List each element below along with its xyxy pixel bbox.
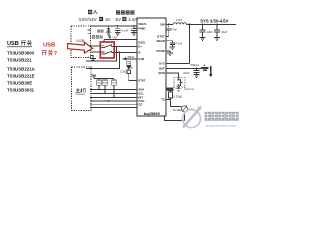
svg-text:2.4A: 2.4A xyxy=(128,17,137,22)
watermark logo (elecfans) xyxy=(183,106,202,128)
capacitor C5 10uF on SYS xyxy=(202,24,204,29)
svg-text:4.7uF: 4.7uF xyxy=(175,41,182,45)
svg-text:USB: USB xyxy=(76,38,85,43)
wire thermistor to ground rail xyxy=(183,112,185,121)
thermistor RT1 10.3k NTC xyxy=(181,106,187,112)
resistor value labels 10k inside boxes xyxy=(97,82,117,84)
svg-text:CE: CE xyxy=(138,102,142,106)
value labels xyxy=(120,27,228,112)
svg-text:QON: QON xyxy=(158,71,165,75)
IC U1 pin labels (left) xyxy=(138,22,146,106)
node VBUS junction dots xyxy=(117,25,119,27)
svg-text:TS3USB3000: TS3USB3000 xyxy=(7,51,35,56)
red arrow callout xyxy=(68,42,93,53)
current arrow (discharge) xyxy=(210,66,211,74)
capacitor C7 10uF on BAT xyxy=(196,68,198,70)
node D+ drop junction xyxy=(116,46,118,48)
svg-text:TS3USB221: TS3USB221 xyxy=(7,58,32,63)
svg-text:10uF: 10uF xyxy=(221,30,227,34)
capacitor C6 10uF on SYS xyxy=(216,24,218,29)
wire SDA row xyxy=(90,88,137,90)
capacitor C4 4.7uF on REGN xyxy=(170,43,175,45)
capacitor C1 0.1uF on VBUS xyxy=(117,26,119,28)
svg-text:5.23kΩ: 5.23kΩ xyxy=(174,95,183,99)
svg-text:5V: 5V xyxy=(116,17,121,22)
USB connector pin stubs xyxy=(88,30,91,33)
battery BT1 xyxy=(201,67,208,69)
wire STAT xyxy=(129,74,137,81)
svg-text:36kΩ: 36kΩ xyxy=(128,55,134,59)
svg-text:BAT: BAT xyxy=(159,67,165,71)
node SYS junctions xyxy=(188,24,190,26)
wire DSEL select line xyxy=(104,39,137,42)
wire VBUS from USB connector to VBUS pin xyxy=(91,25,138,27)
host MCU dashed box xyxy=(72,67,92,111)
annotation small label near TVS xyxy=(97,30,103,33)
svg-text:Optional: Optional xyxy=(184,87,194,91)
svg-text:D-: D- xyxy=(138,50,141,54)
ground for D1 xyxy=(106,33,112,36)
svg-text:47nF: 47nF xyxy=(171,27,177,31)
wire ILIM with net arrow xyxy=(123,58,138,60)
wire REGN pin xyxy=(166,41,172,43)
wire PMID pin stub xyxy=(134,28,137,30)
input annotation 输入 3.9V/14V 或 3A xyxy=(88,10,92,14)
svg-text:TS3USB221E: TS3USB221E xyxy=(7,74,35,79)
wire D+ switch to IC xyxy=(112,46,138,48)
wire D- to host xyxy=(86,52,119,68)
ground for C2 xyxy=(131,33,137,36)
inductor L1 1uH xyxy=(173,23,186,25)
capacitor C2 1uF xyxy=(133,26,135,28)
svg-text:10uF: 10uF xyxy=(183,71,189,75)
svg-text:USB: USB xyxy=(112,37,117,39)
svg-text:?: ? xyxy=(54,51,58,57)
svg-text:TS3USB30E: TS3USB30E xyxy=(7,81,32,86)
svg-text:+: + xyxy=(203,63,205,67)
svg-text:SW: SW xyxy=(160,23,165,27)
wire D- from USB to switch xyxy=(91,51,102,53)
node junctions on I2C rows xyxy=(98,88,100,90)
diode D1 TVS on VBUS xyxy=(108,26,110,28)
ground below USB connector xyxy=(91,55,94,58)
svg-text:PMID: PMID xyxy=(138,26,145,30)
wire TS pin xyxy=(166,99,170,101)
svg-text:REGN: REGN xyxy=(166,88,173,91)
switch S1 (USB switch, D+) xyxy=(102,45,112,48)
svg-text:REGN: REGN xyxy=(156,39,164,43)
IC U1 bq25890 body xyxy=(137,18,166,116)
pushbutton SW1 (optional) dashed box xyxy=(174,78,185,87)
svg-text:D+: D+ xyxy=(138,44,142,48)
svg-text:SYS 3.5V-4.5V: SYS 3.5V-4.5V xyxy=(200,18,228,23)
svg-text:STAT: STAT xyxy=(138,78,145,82)
IC U1 pin labels (right) xyxy=(156,23,165,102)
wire D- switch to IC xyxy=(112,51,138,53)
net flag box for LED supply xyxy=(127,62,131,66)
svg-text:USB: USB xyxy=(43,42,55,48)
annotation 选择 with down arrow xyxy=(92,35,103,38)
wire D+ to host xyxy=(86,47,117,61)
svg-text:TS: TS xyxy=(161,98,165,102)
wire PSEL row xyxy=(90,106,137,108)
net flag REGN for TS pull-up xyxy=(167,91,173,92)
wire OTG row xyxy=(90,100,137,102)
svg-text:10kΩ: 10kΩ xyxy=(103,82,108,84)
wire D+ from USB to switch xyxy=(91,45,102,47)
ground for C6 xyxy=(214,37,220,40)
svg-text:TS3USB3031: TS3USB3031 xyxy=(7,88,35,93)
wire QON pin to optional button xyxy=(166,73,179,78)
wire INT row xyxy=(90,96,137,98)
wire SW pin to inductor xyxy=(166,23,173,25)
watermark text 电子发烧友 xyxy=(205,112,239,121)
ground for C7 xyxy=(194,75,200,78)
wire VREF pull-up rail xyxy=(94,78,114,80)
label 主机 (host) xyxy=(76,88,86,93)
resistor R5 10k INT pullup xyxy=(112,80,117,85)
svg-text:500mA: 500mA xyxy=(191,63,200,67)
wire SYS rail top xyxy=(186,23,236,25)
svg-text:bq25890: bq25890 xyxy=(144,111,161,116)
ground for C4 xyxy=(170,47,176,50)
svg-text:SYS: SYS xyxy=(159,61,165,65)
wire PGND pin xyxy=(166,51,170,52)
svg-text:3.9V/14V: 3.9V/14V xyxy=(79,17,97,22)
ground for C1 xyxy=(115,33,121,36)
power flag VREF xyxy=(92,76,96,79)
ground PGND xyxy=(167,53,173,56)
wire TS node down to thermistor xyxy=(170,100,181,107)
capacitor C3 47nF bootstrap BTST xyxy=(168,24,170,27)
ground for C5 xyxy=(200,37,206,40)
svg-text:10kΩ: 10kΩ xyxy=(97,82,102,84)
resistor R3 10k SDA pullup xyxy=(97,80,102,85)
svg-text:TS3USB221A: TS3USB221A xyxy=(7,67,36,72)
LED DS1 on STAT xyxy=(127,69,131,71)
LED arrows xyxy=(131,66,134,69)
svg-text:2.2kΩ: 2.2kΩ xyxy=(120,70,127,74)
wire BAT rail xyxy=(166,67,209,69)
svg-text:10kΩ: 10kΩ xyxy=(112,82,117,84)
wire SYS vertical xyxy=(188,24,190,63)
red highlight box around USB switches xyxy=(100,42,114,58)
resistor R2 2.2k for LED xyxy=(127,70,130,74)
node D- drop junction xyxy=(118,52,120,54)
svg-text:USB: USB xyxy=(7,41,19,47)
resistor R6 5.23k xyxy=(168,92,172,98)
svg-text:ILIM: ILIM xyxy=(138,57,144,61)
wire SYS pin to rail xyxy=(166,62,189,64)
svg-text:BTST: BTST xyxy=(157,34,165,38)
resistor R4 10k SCL pullup xyxy=(103,80,108,85)
svg-text:10uF: 10uF xyxy=(207,30,213,34)
input annotation 2 (adapter) xyxy=(116,10,134,14)
svg-text:0.1uF: 0.1uF xyxy=(121,28,128,32)
svg-text:3A: 3A xyxy=(105,17,110,22)
wire CE row xyxy=(90,103,137,105)
wire PGND bottom rail xyxy=(165,116,185,120)
USB connector J1 dashed box xyxy=(71,26,91,58)
svg-text:10.3kΩ: 10.3kΩ xyxy=(173,108,182,112)
wire SCL row xyxy=(90,92,137,94)
svg-text:VREF: VREF xyxy=(90,74,96,76)
svg-text:1uH: 1uH xyxy=(176,18,182,22)
svg-text:PGND: PGND xyxy=(156,49,164,53)
svg-text:www.elecfans.com: www.elecfans.com xyxy=(206,124,237,128)
ground for SW1 xyxy=(178,87,180,88)
switch S2 (USB switch, D-) xyxy=(102,51,112,54)
